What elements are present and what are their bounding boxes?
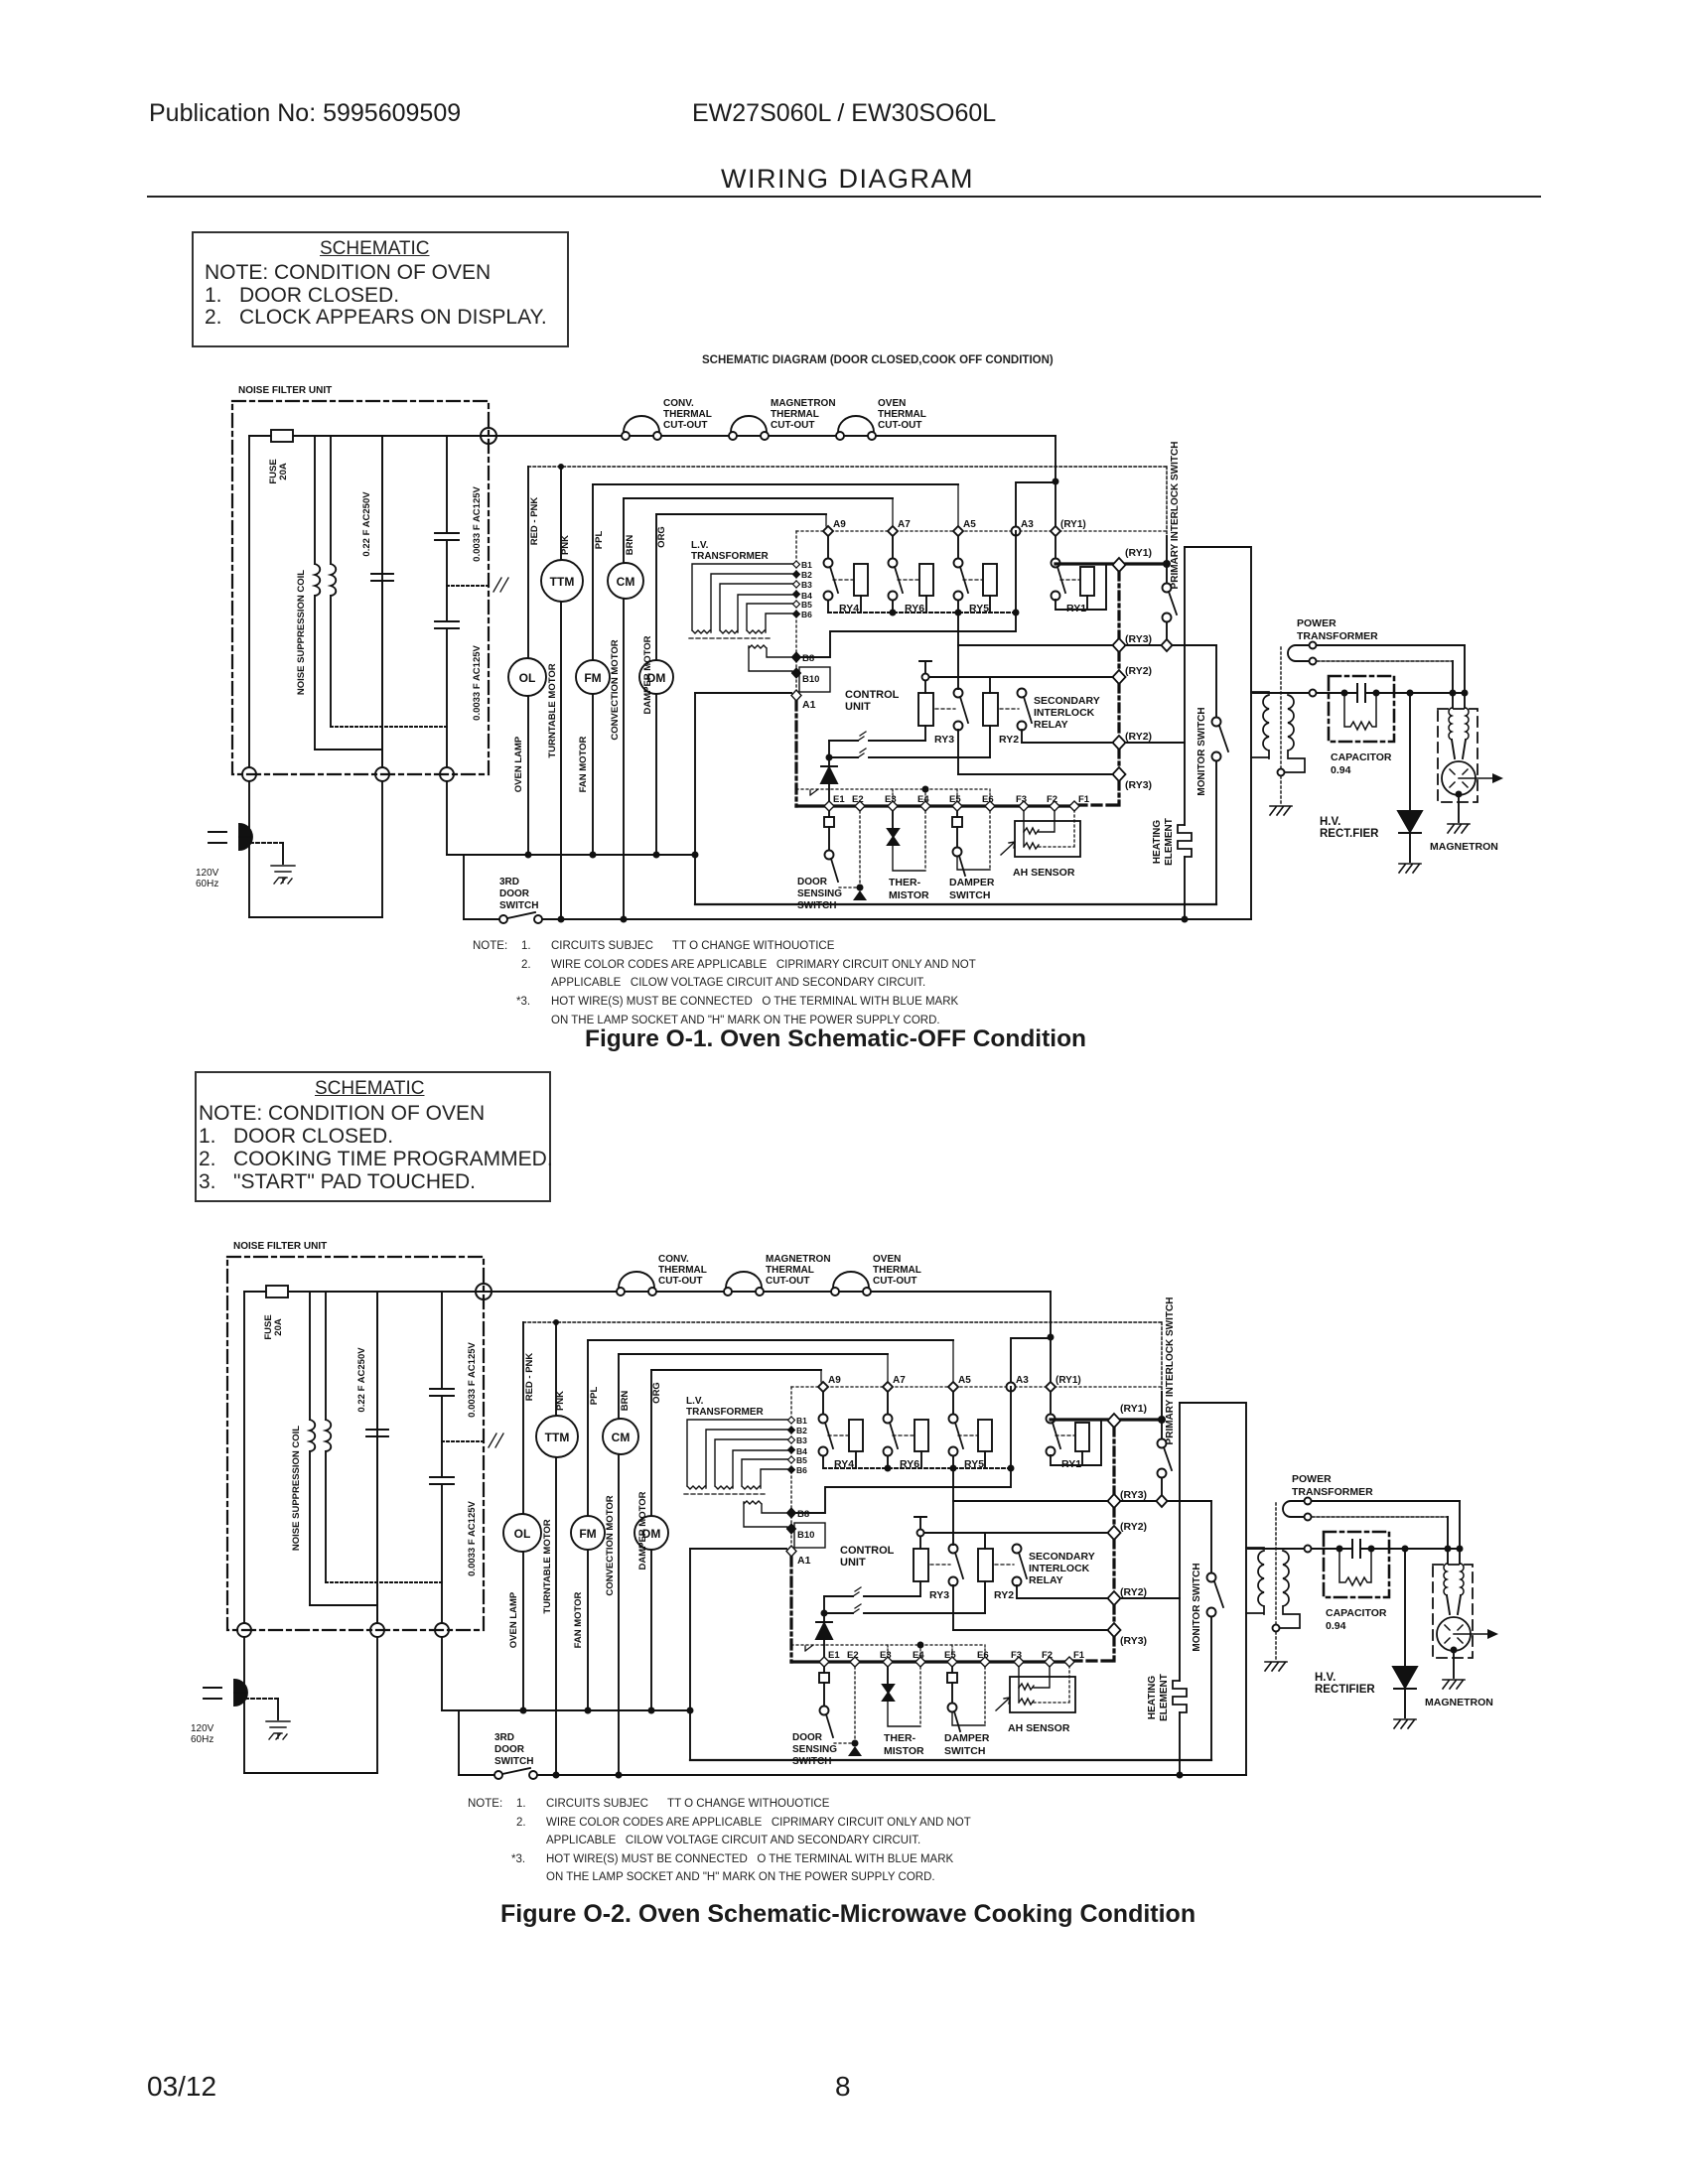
schematic figure O-2 (identical circuit redrawn) — [191, 1241, 1498, 1779]
notes under figure 1 — [473, 940, 507, 952]
schematic diagram subtitle fig1 — [702, 354, 1054, 366]
schematic figure O-1 — [196, 385, 1503, 923]
title rule — [147, 196, 1541, 198]
svg-text:H.V.: H.V. — [1320, 816, 1340, 828]
note box 2 — [195, 1071, 551, 1202]
HV rectifier label fig1 — [1315, 816, 1379, 1696]
svg-text:H.V.: H.V. — [1315, 1672, 1336, 1684]
footer date — [147, 2071, 216, 2103]
svg-text:RECT.FIER: RECT.FIER — [1320, 828, 1379, 840]
figure 1 caption — [585, 1025, 1086, 1053]
header publication number — [149, 99, 461, 128]
notes under figure 2 — [468, 1798, 502, 1810]
page title — [721, 164, 974, 195]
footer page number — [835, 2071, 851, 2103]
svg-text:RECTIFIER: RECTIFIER — [1315, 1684, 1375, 1696]
header model numbers — [692, 99, 996, 128]
figure 2 caption — [500, 1900, 1196, 1929]
note box 1 — [192, 231, 569, 347]
